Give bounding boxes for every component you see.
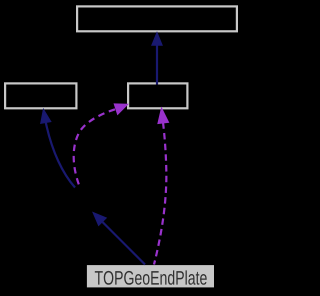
arrow middle-to-top (solid navy, vertical) (152, 33, 162, 85)
arrow dashed purple to middle box left edge (74, 104, 128, 185)
arrow dashed purple from TOPGeoEndPlate to middle box bottom (154, 108, 169, 265)
node left (empty box) (5, 83, 76, 108)
node middle (empty box) (128, 83, 187, 108)
node top (empty box) (77, 6, 237, 31)
arrow from TOPGeoEndPlate up-left (solid navy, straight) (93, 212, 145, 264)
node TOPGeoEndPlate (87, 265, 214, 287)
arrow to left box (solid navy, curved) (41, 109, 75, 187)
